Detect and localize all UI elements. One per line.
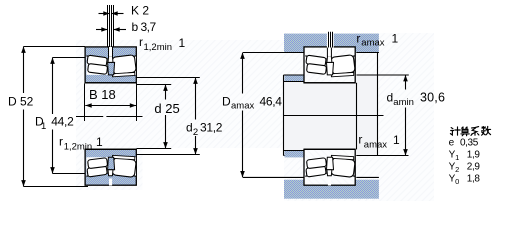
svg-text:amax: amax	[364, 139, 387, 150]
roller row left upper	[87, 55, 107, 66]
raceway cavity	[86, 56, 136, 75]
shaft step face	[356, 83, 358, 150]
label r amax top	[356, 31, 398, 48]
shaft left wall	[283, 75, 285, 156]
dimension K 2	[99, 4, 150, 18]
svg-text:amax: amax	[361, 38, 384, 49]
svg-text:1: 1	[455, 153, 459, 162]
bearing section left bottom half (mirror)	[85, 149, 136, 185]
svg-text:1: 1	[392, 31, 399, 45]
housing shoulder edge top	[243, 52, 304, 54]
label r1,2min bottom	[59, 135, 103, 153]
svg-text:1: 1	[96, 135, 103, 149]
svg-text:r: r	[59, 135, 63, 149]
extension lines lube hole K / b	[108, 5, 114, 47]
dimension d 25	[137, 85, 180, 149]
table header 计算系数	[450, 126, 490, 135]
table row e 0,35	[449, 138, 479, 149]
系	[472, 127, 479, 128]
housing section bottom band	[284, 180, 379, 199]
svg-text:1: 1	[393, 133, 400, 147]
shaft right wall	[377, 53, 379, 156]
svg-text:d: d	[186, 120, 193, 134]
svg-text:r: r	[358, 133, 362, 147]
svg-text:0,35: 0,35	[460, 138, 479, 149]
roller row right	[112, 55, 137, 75]
svg-text:amax: amax	[231, 100, 254, 111]
table row Y0 1,8	[449, 173, 481, 186]
label r amax bottom	[358, 133, 400, 151]
dimension damin 30,6	[356, 75, 445, 156]
svg-text:0: 0	[455, 177, 459, 186]
lubrication hole W33	[108, 56, 113, 62]
svg-text:1,8: 1,8	[467, 173, 481, 184]
svg-text:D: D	[222, 94, 231, 108]
svg-text:2: 2	[193, 127, 198, 138]
shaft abutment strip top (blue)	[285, 76, 304, 82]
housing section top band	[284, 34, 379, 53]
bore line	[85, 82, 136, 84]
shaft abutment strip bottom (blue)	[285, 151, 304, 158]
svg-text:D 52: D 52	[8, 95, 34, 109]
table row Y2 2,9	[449, 162, 481, 175]
shaft shoulder surface top	[284, 74, 304, 76]
bearing section left top half	[85, 47, 136, 83]
dimension D1 44,2	[35, 58, 85, 174]
svg-text:amin: amin	[393, 97, 414, 108]
svg-text:1: 1	[179, 36, 186, 50]
shaft shoulder surface bottom	[284, 155, 304, 157]
svg-text:2: 2	[455, 165, 459, 174]
svg-text:r: r	[356, 31, 360, 45]
svg-text:31,2: 31,2	[200, 120, 223, 134]
算	[462, 127, 467, 129]
svg-text:e: e	[449, 138, 455, 149]
svg-text:1,9: 1,9	[467, 150, 481, 161]
dimension b 3,7	[96, 20, 157, 34]
数	[482, 127, 486, 130]
centre axis right view	[283, 115, 384, 117]
roller row left lower	[88, 64, 108, 75]
svg-text:d 25: d 25	[154, 101, 179, 116]
lube hole channel right view	[327, 34, 334, 48]
svg-text:K 2: K 2	[131, 4, 149, 18]
svg-text:44,2: 44,2	[51, 115, 74, 129]
label r1,2min top	[139, 35, 186, 53]
svg-text:B 18: B 18	[89, 87, 116, 102]
outer+inner ring body (blue)	[85, 47, 136, 83]
cage bar right	[113, 72, 135, 76]
outer raceway line	[86, 56, 136, 59]
计	[451, 128, 453, 129]
svg-text:b 3,7: b 3,7	[132, 20, 157, 34]
svg-text:2,9: 2,9	[467, 162, 481, 173]
svg-text:d: d	[387, 90, 394, 104]
lube hole lines right view	[329, 32, 333, 48]
svg-text:1,2min: 1,2min	[144, 42, 173, 53]
table row Y1 1,9	[449, 150, 481, 163]
housing shoulder edge bottom	[243, 176, 304, 178]
dimension B 18	[85, 84, 137, 122]
dimension Damax 46,4	[222, 53, 282, 178]
svg-text:46,4: 46,4	[260, 94, 283, 108]
bearing section right top half (outline only)	[304, 47, 355, 83]
bearing section right bottom half (outline mirror)	[304, 149, 355, 185]
centre guide ring	[108, 62, 115, 75]
svg-text:30,6: 30,6	[420, 90, 445, 104]
dimension d2 31,2	[137, 78, 223, 155]
svg-text:1,2min: 1,2min	[64, 142, 93, 153]
dimension D 52	[8, 47, 88, 187]
svg-text:1: 1	[41, 121, 46, 132]
svg-text:r: r	[139, 35, 143, 49]
centre axis left view	[76, 116, 103, 118]
shaft body	[284, 74, 377, 155]
